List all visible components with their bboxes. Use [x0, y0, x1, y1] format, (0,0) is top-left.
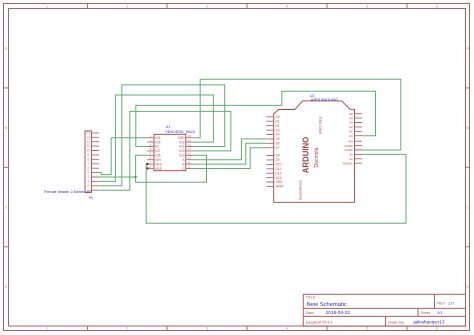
- svg-text:IO2: IO2: [179, 140, 184, 144]
- svg-text:D9: D9: [276, 158, 280, 162]
- svg-text:2: 2: [126, 5, 128, 9]
- IC U1 right pin names VDD IO2 IO1 IO0 IO3 A B C: [178, 136, 186, 171]
- svg-text:VSS: VSS: [155, 167, 162, 171]
- svg-text:VEE: VEE: [155, 162, 162, 166]
- IC U1 left pin names IO4 IO6 IO IO7 IO5 INH VEE VSS: [155, 136, 162, 171]
- title block outline: [303, 294, 465, 326]
- wire MUX VDD top line to Arduino GND1: [193, 79, 401, 150]
- wire MUX C to Arduino D7: [193, 148, 267, 169]
- svg-text:GND1: GND1: [344, 148, 353, 152]
- svg-text:12: 12: [86, 140, 90, 144]
- svg-text:A4: A4: [349, 116, 353, 120]
- svg-text:ARDUINO: ARDUINO: [301, 137, 310, 173]
- svg-text:P1: P1: [89, 196, 93, 200]
- wire MUX B to Arduino D6: [193, 143, 267, 164]
- svg-text:D8: D8: [276, 154, 280, 158]
- svg-text:IO0: IO0: [179, 149, 184, 153]
- svg-text:4: 4: [286, 5, 288, 9]
- IC U1 right pin stubs (pins 16-9): [186, 138, 193, 169]
- svg-text:IO1: IO1: [179, 145, 184, 149]
- svg-text:D11: D11: [276, 167, 282, 171]
- svg-text:EasyEDA V5.4.9: EasyEDA V5.4.9: [306, 320, 333, 324]
- svg-text:D13: D13: [276, 176, 282, 180]
- svg-text:D1: D1: [276, 119, 280, 123]
- MCU U2 left pin names: [276, 115, 285, 189]
- svg-text:UNO R3\2: UNO R3\2: [318, 116, 323, 134]
- svg-text:IO3: IO3: [179, 154, 184, 158]
- svg-text:5v: 5v: [350, 153, 354, 157]
- svg-text:IO: IO: [155, 145, 159, 149]
- svg-text:74HC4051_MUX: 74HC4051_MUX: [165, 129, 196, 134]
- svg-text:AREF: AREF: [276, 185, 285, 189]
- frame row tick marks (left edge): [4, 88, 9, 247]
- svg-text:13: 13: [86, 135, 90, 139]
- svg-text:1: 1: [46, 5, 48, 9]
- svg-text:6: 6: [87, 166, 89, 170]
- svg-text:IO7: IO7: [155, 149, 160, 153]
- svg-text:VDD: VDD: [178, 136, 186, 140]
- svg-text:IO5: IO5: [155, 154, 160, 158]
- svg-text:REV:: REV:: [438, 301, 446, 305]
- IC U1 74HC4051_MUX body: [154, 134, 186, 170]
- svg-text:Female header 2.54mm14P: Female header 2.54mm14P: [44, 190, 92, 194]
- MCU module U2 ARDUINOUNO body outline: [274, 101, 355, 202]
- svg-text:D6: D6: [276, 142, 280, 146]
- svg-text:ARDUINOUNO: ARDUINOUNO: [311, 97, 338, 102]
- svg-text:IO6: IO6: [155, 140, 160, 144]
- connector P1 pin numbers 14..1: [86, 131, 90, 192]
- svg-text:jaikishaniyer13: jaikishaniyer13: [413, 320, 445, 325]
- wire P1 pin4 line to IO5/IO3 net: [99, 176, 135, 178]
- svg-text:2: 2: [87, 184, 89, 188]
- svg-text:RESET: RESET: [343, 161, 353, 165]
- svg-text:C: C: [466, 205, 469, 209]
- svg-text:10: 10: [86, 149, 90, 153]
- title block row dividers: [303, 308, 465, 316]
- wire GND rail bottom loop to Arduino 5v: [146, 154, 406, 223]
- svg-text:A3: A3: [349, 121, 353, 125]
- svg-text:A1: A1: [349, 130, 353, 134]
- wire MUX IO common to Arduino A0: [136, 91, 376, 146]
- frame column tick marks (bottom edge): [87, 326, 407, 331]
- svg-text:D3: D3: [276, 128, 280, 132]
- wire MUX IO1 to P1 pin2: [99, 85, 225, 186]
- wire MUX IO2 to P1 pin3: [99, 95, 213, 181]
- svg-text:D7: D7: [276, 146, 280, 150]
- wire MUX A to Arduino D5: [193, 139, 267, 160]
- svg-text:6: 6: [436, 327, 438, 331]
- svg-text:9: 9: [87, 153, 89, 157]
- svg-text:2: 2: [126, 327, 128, 331]
- svg-text:4: 4: [87, 175, 89, 179]
- MCU U2 right pin names: [343, 112, 354, 165]
- svg-text:3v: 3v: [350, 157, 354, 161]
- IC U1 left pin stubs (pins 1-8): [147, 138, 154, 169]
- svg-text:5: 5: [366, 5, 368, 9]
- svg-text:8: 8: [87, 157, 89, 161]
- svg-text:D10: D10: [276, 163, 282, 167]
- svg-text:14: 14: [86, 131, 90, 135]
- svg-text:D4: D4: [276, 133, 280, 137]
- svg-text:C: C: [5, 205, 8, 209]
- svg-text:IO4: IO4: [155, 136, 160, 140]
- wire MUX IO5 and IO3 joined line: [136, 155, 207, 182]
- svg-text:Date:: Date:: [306, 311, 315, 315]
- svg-text:5: 5: [366, 327, 368, 331]
- svg-text:TITLE:: TITLE:: [306, 296, 316, 300]
- frame column numbers (top): [46, 5, 438, 9]
- svg-text:VIN: VIN: [348, 139, 353, 143]
- IC U1 left pin numbers: [150, 134, 152, 169]
- svg-text:A2: A2: [349, 125, 353, 129]
- wire MUX IO0 to P1 pin1: [99, 111, 231, 190]
- svg-text:D2: D2: [276, 124, 280, 128]
- frame row letters (right): [466, 47, 469, 289]
- frame row tick marks (right edge): [466, 88, 470, 247]
- svg-text:3: 3: [206, 5, 208, 9]
- svg-text:2018-04-22: 2018-04-22: [326, 310, 351, 316]
- wire MUX IO4 to P1 pin5: [99, 138, 147, 175]
- svg-text:D: D: [5, 285, 8, 289]
- svg-text:Sheet:: Sheet:: [421, 311, 431, 315]
- frame column numbers (bottom): [46, 327, 438, 331]
- svg-text:A0: A0: [349, 134, 353, 138]
- svg-text:6: 6: [436, 5, 438, 9]
- svg-text:D0: D0: [276, 115, 280, 119]
- svg-text:D12: D12: [276, 171, 282, 175]
- svg-text:3: 3: [87, 180, 89, 184]
- IC U1 VSS net square: [146, 167, 148, 169]
- svg-text:7: 7: [87, 162, 89, 166]
- svg-text:Drawn By:: Drawn By:: [388, 320, 405, 324]
- MCU U2 right pin stubs A5-RESET: [355, 114, 363, 164]
- title block column dividers: [386, 294, 435, 326]
- svg-text:New Schematic: New Schematic: [307, 302, 347, 308]
- svg-text:1/1: 1/1: [437, 310, 443, 315]
- svg-text:11: 11: [86, 144, 90, 148]
- svg-text:D5: D5: [276, 137, 280, 141]
- svg-text:5: 5: [87, 171, 89, 175]
- IC U1 right pin numbers: [188, 134, 191, 169]
- MCU U2 left pin stubs D0-AREF: [266, 117, 273, 187]
- frame column tick marks (top edge): [87, 4, 407, 9]
- svg-text:A5: A5: [349, 112, 353, 116]
- svg-text:3: 3: [206, 327, 208, 331]
- svg-text:Decimila: Decimila: [314, 147, 320, 167]
- junction dot at 135.6,177.0: [134, 176, 136, 178]
- svg-text:D: D: [466, 285, 469, 289]
- IC U1 VEE net square: [146, 163, 148, 165]
- svg-text:Duemilanove: Duemilanove: [298, 180, 302, 200]
- svg-text:1: 1: [46, 327, 48, 331]
- connector P1 pin stubs 1-14: [91, 133, 99, 190]
- svg-text:1.0: 1.0: [448, 300, 454, 305]
- svg-text:4: 4: [286, 327, 288, 331]
- svg-text:GND2: GND2: [344, 144, 353, 148]
- svg-text:GND: GND: [276, 180, 284, 184]
- svg-text:INH: INH: [155, 158, 161, 162]
- connector P1 body (female header 14P): [85, 131, 91, 193]
- frame row letters (left): [5, 47, 8, 289]
